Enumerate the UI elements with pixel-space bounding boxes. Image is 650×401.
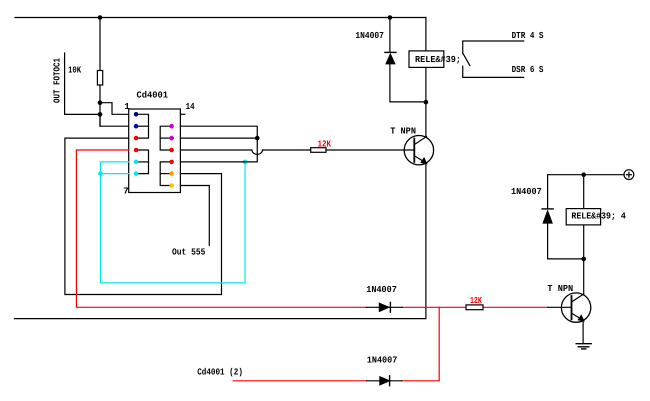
svg-text:Cd4001 (2): Cd4001 (2) xyxy=(197,367,243,378)
wire jog from node A to IC pin 1 xyxy=(100,103,129,115)
power terminal plus xyxy=(624,170,634,180)
resistor R1 10K body xyxy=(97,71,102,86)
wire right bus pin rows to vertical xyxy=(180,126,257,162)
node pin dot cyan 6 xyxy=(134,171,139,176)
wire Q2 emitter to ground xyxy=(582,321,584,344)
node junction A xyxy=(98,100,103,105)
node pin dot red 9 xyxy=(169,148,174,153)
svg-text:12K: 12K xyxy=(318,138,332,149)
wire red D2 right to R3 xyxy=(402,306,466,308)
wire Q2 collector riser xyxy=(583,259,585,294)
wire red net xyxy=(76,150,547,381)
wire Q2 base black segment xyxy=(548,306,572,308)
svg-text:RELE&#39;: RELE&#39; xyxy=(415,54,461,65)
svg-text:Cd4001: Cd4001 xyxy=(137,90,169,101)
transistor Q2 T NPN xyxy=(561,293,590,322)
node junction bus 138 xyxy=(255,136,260,141)
node pin dot magenta 8 xyxy=(169,136,174,141)
wire relay1 riser from rail xyxy=(425,18,427,51)
node pin dot cyan 5 xyxy=(134,160,139,165)
wire red bottom Cd4001(2) xyxy=(233,380,366,382)
node junction relay1 bottom xyxy=(424,100,429,105)
wire internal gate bracket left top xyxy=(136,114,148,138)
resistor R2 12K body xyxy=(311,148,326,153)
svg-text:7: 7 xyxy=(123,186,129,197)
wire internal gate bracket left bottom xyxy=(136,150,148,174)
diode D1 1N4007 xyxy=(385,52,396,64)
svg-text:1N4007: 1N4007 xyxy=(367,354,398,365)
node pin dot red 4 xyxy=(134,148,139,153)
svg-text:T NPN: T NPN xyxy=(547,283,573,294)
wire relay2 top rail xyxy=(548,174,624,176)
svg-text:T NPN: T NPN xyxy=(390,126,416,137)
node junction relay2 top xyxy=(581,172,586,177)
relay K2 body xyxy=(566,209,600,225)
node pin dot red 3 xyxy=(134,136,139,141)
wire internal gate bracket right top xyxy=(160,126,171,150)
node pin dot orange 11 xyxy=(169,171,174,176)
node junction top rail at R1 xyxy=(98,15,103,20)
node pin dot gold 12 xyxy=(169,183,174,188)
wire Q1 collector riser xyxy=(425,102,427,136)
wire out555 branch xyxy=(180,186,209,246)
relay K1 body xyxy=(409,51,444,68)
svg-text:1N4007: 1N4007 xyxy=(511,186,542,197)
wire hop arc xyxy=(252,150,263,154)
wire top supply rail xyxy=(15,17,426,19)
switch S1 contact structure xyxy=(463,41,524,77)
wire R1 top lead xyxy=(99,18,101,71)
svg-text:Out 555: Out 555 xyxy=(172,246,206,257)
wire red R3 to Q2 xyxy=(483,306,548,308)
svg-text:DSR 6 S: DSR 6 S xyxy=(512,64,544,75)
svg-text:14: 14 xyxy=(186,101,195,112)
ground xyxy=(576,344,591,349)
wire IC pin 2 lead xyxy=(100,114,129,126)
wire black loop pin3 left down around xyxy=(65,138,222,294)
wire red branch down xyxy=(402,307,439,381)
node cyan junction pin6 xyxy=(98,171,103,176)
svg-text:1N4007: 1N4007 xyxy=(355,30,384,41)
wire relay2 riser below box xyxy=(583,225,585,259)
wire D1 bottom to junction xyxy=(390,64,426,102)
wire cyan net left pins loop xyxy=(101,162,246,283)
svg-text:DTR 4 S: DTR 4 S xyxy=(512,30,544,41)
wire R2 to Q1 base xyxy=(326,149,414,151)
svg-text:RELE&#39; 4: RELE&#39; 4 xyxy=(571,210,626,221)
node pin dot magenta 7 xyxy=(169,124,174,129)
svg-text:10K: 10K xyxy=(68,65,82,76)
node junction diode D1 top xyxy=(388,15,393,20)
wire OUT FOTOC1 stub xyxy=(65,53,100,114)
transistor Q1 T NPN xyxy=(404,136,433,165)
wire R1 bottom lead xyxy=(99,85,101,126)
node junction B xyxy=(98,112,103,117)
svg-text:1: 1 xyxy=(124,101,130,112)
wire cyan pin6 stub xyxy=(101,173,129,175)
op-amp U1 Cd4001 body xyxy=(129,109,181,193)
node pin dot navy 1 xyxy=(134,112,139,117)
node pin dot navy 2 xyxy=(134,124,139,129)
node junction relay2 bottom xyxy=(581,257,586,262)
diode D2 1N4007 xyxy=(366,302,402,312)
wire D1 branch top xyxy=(389,18,391,53)
wire D4 bottom xyxy=(548,224,584,259)
wire relay2 riser above box xyxy=(583,175,585,209)
wire gate output row 150 with hop to Q1 base xyxy=(180,149,252,151)
node pin dot red 10 xyxy=(169,160,174,165)
svg-text:1N4007: 1N4007 xyxy=(366,284,397,295)
wire pin 14 tick xyxy=(180,113,184,115)
wire row 138 to bus xyxy=(180,137,257,139)
wire D4 branch top xyxy=(547,175,549,209)
diode D3 1N4007 xyxy=(367,376,402,386)
wire hop to 12K resistor R2 xyxy=(263,149,311,151)
wire internal gate bracket right bottom xyxy=(160,162,171,186)
wire red pin4 loop xyxy=(76,150,366,307)
wire relay1 riser below box xyxy=(425,67,427,102)
node cyan junction top xyxy=(243,160,248,165)
diode D4 1N4007 xyxy=(542,209,553,224)
svg-text:OUT FOTOC1: OUT FOTOC1 xyxy=(52,58,63,103)
wire Q1 emitter long run xyxy=(14,163,426,318)
svg-text:12K: 12K xyxy=(470,295,482,306)
resistor R3 12K body xyxy=(466,305,483,310)
